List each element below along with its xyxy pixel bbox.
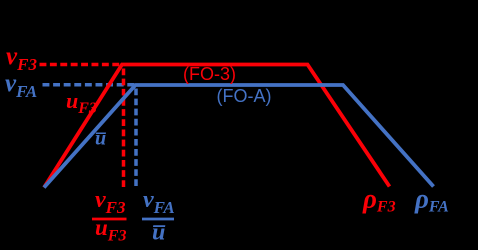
blue dashed horizontal guide at vFA <box>43 83 136 87</box>
svg-text:u̅: u̅ <box>152 220 165 246</box>
red trapezoid curve (FO-3) <box>44 65 390 188</box>
blue trapezoid curve (FO-A) <box>44 85 434 188</box>
red dashed horizontal guide at vF3 <box>40 63 123 67</box>
svg-text:(FO-3): (FO-3) <box>183 64 236 84</box>
fraction vFA/ubar bar <box>142 218 174 221</box>
svg-text:u̅: u̅ <box>95 128 107 150</box>
red dashed vertical guide at vF3/uF3 <box>122 69 126 188</box>
blue dashed vertical guide at vFA/ubar <box>134 89 138 187</box>
fraction vF3/uF3 bar <box>92 218 127 221</box>
svg-text:(FO-A): (FO-A) <box>217 86 272 106</box>
